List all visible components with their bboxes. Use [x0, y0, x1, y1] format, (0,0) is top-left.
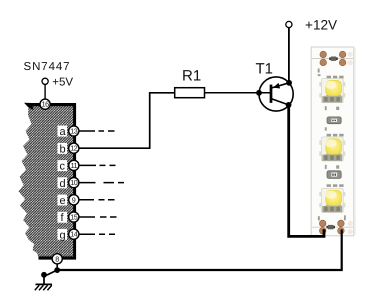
strip markings bottom	[318, 215, 346, 220]
pin g 14	[69, 229, 79, 239]
pin 16	[40, 99, 50, 109]
transistor T1 emitter	[272, 83, 289, 88]
svg-text:SN7447: SN7447	[24, 61, 71, 73]
white notch for pin letter f	[58, 212, 68, 223]
pin 8	[52, 254, 62, 264]
transistor T1 base bar	[270, 85, 273, 103]
solder pad bottom-right 1	[338, 220, 345, 227]
faint right-edge pad top 1	[348, 52, 353, 57]
solder joint line top	[312, 58, 353, 60]
svg-text:T1: T1	[256, 61, 274, 78]
pin e 9	[69, 195, 79, 205]
LED module 3	[319, 188, 345, 212]
solder pad top-right 2	[339, 59, 346, 66]
white notch for pin letter a	[58, 126, 68, 137]
svg-text:b: b	[60, 143, 66, 155]
svg-text:11: 11	[71, 161, 78, 170]
svg-text:16: 16	[42, 100, 49, 109]
strip marking after LED2	[325, 165, 339, 169]
wire pin b to R1	[79, 93, 175, 148]
pin c 11	[69, 160, 79, 170]
node ground junction	[41, 272, 47, 278]
white notch for pin letter d	[58, 177, 68, 188]
IC right edge	[73, 103, 76, 259]
chip between top pads	[329, 57, 338, 61]
svg-text:d: d	[60, 178, 66, 190]
wire R1 to T1 base	[205, 92, 272, 94]
solder pad top-right 1	[339, 51, 346, 58]
svg-text:10: 10	[70, 178, 77, 187]
strip markings above LED2	[325, 127, 327, 130]
wire +5V to pin16	[44, 85, 46, 101]
pin f 15	[69, 212, 79, 222]
IC bottom edge	[39, 256, 77, 259]
white notch for pin letter g	[58, 229, 68, 240]
node pin8 junction	[54, 267, 60, 273]
strip markings above LED1	[327, 76, 344, 79]
resistor chip 2 on strip	[327, 171, 341, 179]
solder pad top-left 1	[320, 51, 327, 58]
chip between bottom pads	[326, 225, 335, 229]
faint right-edge pad bottom 1	[348, 221, 353, 226]
faint right-edge pad bottom 2	[348, 229, 353, 234]
white notch for pin letter e	[58, 195, 68, 206]
transistor T1 emitter arrow	[273, 83, 280, 89]
solder pad bottom-left 2	[319, 228, 326, 235]
svg-text:a: a	[60, 126, 67, 138]
pin d 10	[69, 178, 79, 188]
svg-text:R1: R1	[182, 68, 201, 85]
transistor T1 collector	[272, 99, 289, 105]
wire collector to strip bottom-left pad	[289, 105, 324, 237]
ground hatches	[35, 285, 52, 290]
svg-text:9: 9	[72, 195, 76, 204]
svg-text:13: 13	[70, 127, 77, 136]
svg-text:+5V: +5V	[52, 77, 73, 89]
solder pad bottom-right 2	[338, 228, 345, 235]
wire +12V down to emitter	[288, 28, 290, 82]
dashed stub pin f	[79, 216, 117, 218]
+12V terminal circle	[286, 21, 292, 27]
wire jog to ground	[44, 270, 57, 275]
dashed stub pin g	[79, 233, 115, 235]
svg-text:c: c	[60, 161, 66, 173]
dashed stub pin e	[79, 199, 115, 201]
IC SN7447 body (hatched block with torn left edge)	[19, 104, 77, 258]
+5V terminal circle	[42, 78, 48, 84]
svg-text:15: 15	[70, 213, 77, 222]
svg-text:g: g	[60, 229, 66, 241]
white notch for pin letter c	[58, 160, 68, 171]
svg-text:+12V: +12V	[305, 18, 337, 33]
ground bar	[36, 283, 53, 285]
strip marking after LED1	[325, 106, 339, 110]
LED module 1	[319, 79, 345, 103]
IC top edge	[28, 103, 77, 106]
svg-text:e: e	[60, 195, 66, 207]
strip markings top	[318, 69, 321, 77]
svg-text:12: 12	[70, 144, 77, 153]
svg-text:8: 8	[55, 254, 59, 263]
LED module 2	[319, 137, 345, 161]
solder joint line bottom	[312, 226, 353, 228]
strip markings above LED3	[327, 184, 344, 187]
dashed stub pin d	[79, 182, 124, 184]
solder pad bottom-left 1	[319, 220, 326, 227]
node base junction	[256, 90, 262, 96]
wire pin8 down	[56, 264, 58, 270]
LED strip PCB	[311, 47, 355, 236]
solder pad top-left 2	[320, 59, 327, 66]
resistor chip 1 on strip	[327, 117, 341, 124]
pin a 13	[69, 126, 79, 136]
dashed stub pin a	[79, 130, 115, 132]
dashed stub pin c	[79, 164, 116, 166]
wire down to ground	[43, 275, 45, 284]
node emitter junction	[286, 80, 292, 86]
IC top edge left wedge	[24, 103, 34, 110]
resistor R1	[175, 88, 205, 98]
node collector junction	[286, 102, 292, 108]
wire strip bottom-right pad to ground rail	[57, 230, 342, 271]
faint right-edge pad top 2	[348, 60, 353, 65]
white notch for pin letter b	[58, 143, 68, 154]
pin b 12	[69, 143, 79, 153]
transistor T1 circle	[259, 77, 293, 111]
svg-text:14: 14	[70, 230, 77, 239]
